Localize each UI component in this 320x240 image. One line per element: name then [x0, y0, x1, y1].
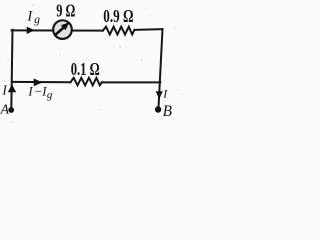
svg-text:g: g [47, 89, 53, 101]
svg-text:−: − [35, 84, 42, 98]
svg-text:0.1 Ω: 0.1 Ω [71, 59, 100, 79]
svg-text:I: I [162, 87, 168, 101]
svg-text:I: I [27, 84, 33, 98]
svg-text:g: g [34, 14, 40, 26]
svg-text:B: B [163, 103, 173, 120]
svg-text:I: I [1, 82, 7, 97]
svg-text:9 Ω: 9 Ω [56, 1, 75, 21]
svg-text:A: A [0, 101, 10, 116]
svg-text:I: I [26, 8, 33, 24]
svg-text:0.9 Ω: 0.9 Ω [103, 6, 133, 26]
